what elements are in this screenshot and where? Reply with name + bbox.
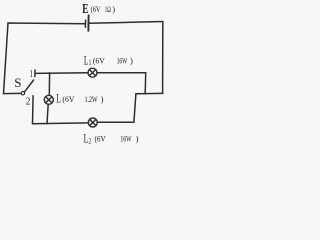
wire mid-right vertical — [134, 94, 136, 123]
lamp L — [44, 95, 53, 104]
wire bottom right of L2 — [97, 121, 134, 123]
svg-text:2: 2 — [26, 96, 31, 108]
wire lamp L vertical bottom — [47, 104, 48, 123]
wire right junction horizontal — [136, 92, 163, 94]
wire branch L1 left — [35, 72, 88, 75]
switch S lever — [25, 80, 34, 92]
lamp L1 — [88, 68, 97, 77]
switch S contact 2 wire — [32, 96, 35, 124]
wire top-right segment — [89, 22, 163, 94]
svg-text:E: E — [82, 0, 88, 17]
node junction lamp-L wire / bottom wire — [46, 123, 48, 125]
battery E long plate — [87, 15, 89, 30]
switch S pivot — [21, 92, 24, 95]
wire branch L1 right with corner down — [97, 73, 146, 94]
switch S contact 1 stub — [34, 70, 36, 77]
battery E short plate — [84, 20, 86, 27]
wire lamp L vertical top — [48, 73, 50, 95]
svg-text:L: L — [56, 93, 61, 106]
svg-text:1: 1 — [30, 67, 34, 79]
wire top-left segment — [4, 23, 85, 94]
svg-text:S: S — [14, 75, 21, 90]
lamp L2 — [88, 118, 97, 127]
node junction branch-L1 / lamp-L wire — [48, 72, 50, 74]
node junction branch-L1 right corner / right horizontal — [144, 92, 146, 94]
wire bottom — [33, 122, 89, 125]
